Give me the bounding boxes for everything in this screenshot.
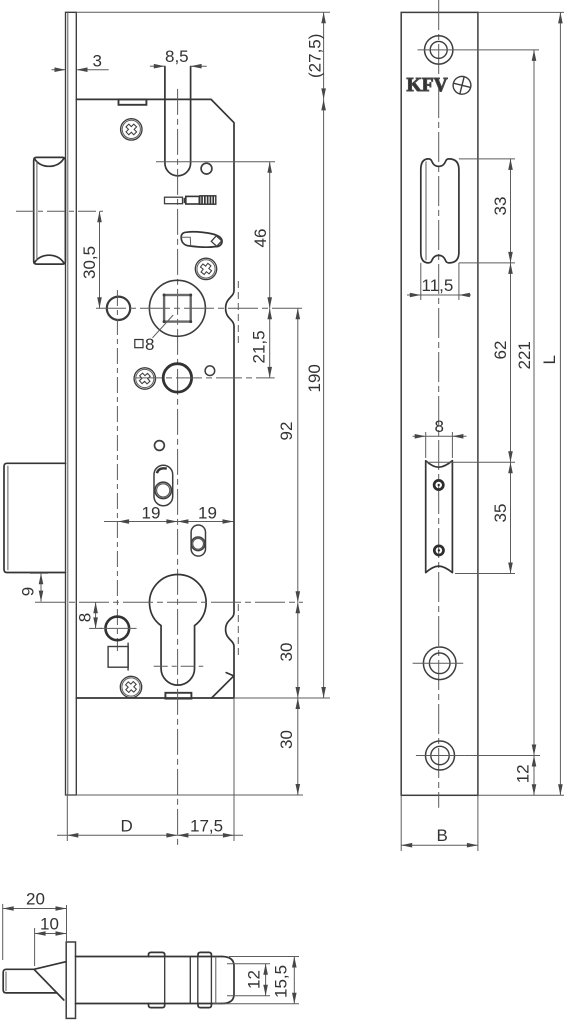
svg-text:62: 62 (491, 341, 510, 360)
spindle bold circle (163, 364, 191, 392)
latch bevel (34, 962, 65, 1000)
spindle horizontal centerline (136, 377, 275, 379)
svg-text:8: 8 (145, 335, 154, 354)
dimension B (401, 795, 478, 851)
svg-text:46: 46 (251, 229, 270, 248)
top extension line (76, 11, 330, 13)
ratchet rack (165, 196, 216, 204)
bottom fixing tab (165, 693, 191, 699)
svg-text:12: 12 (513, 764, 532, 783)
svg-text:12: 12 (245, 970, 264, 989)
flange plate (66, 942, 75, 1018)
dimension 30 lower (277, 698, 300, 795)
dimension 21,5 (249, 308, 272, 378)
dimension 9 (19, 573, 49, 601)
label square8 (135, 335, 155, 354)
lower slot 8x35 (426, 461, 453, 573)
svg-text:15,5: 15,5 (272, 965, 291, 998)
hole H1 (left, follower row) (107, 297, 130, 320)
roller latch head (34, 157, 66, 264)
faceplate strip (66, 12, 77, 795)
faceplate centerline (438, 0, 440, 808)
dimension 3 (52, 52, 109, 73)
dimension 15,5 (detail) (213, 957, 299, 1004)
small circle (slot bottom right) (201, 163, 212, 174)
dimension D 17,5 (57, 795, 243, 841)
svg-text:3: 3 (93, 52, 102, 71)
lock case outline (76, 99, 234, 698)
svg-text:B: B (437, 826, 448, 845)
extension 20/10 at flange (66, 905, 68, 942)
right oval with roller (191, 525, 205, 556)
dimension (27,5) (305, 12, 326, 99)
svg-text:33: 33 (491, 197, 510, 216)
dimension 11,5 (407, 263, 471, 300)
cylinder horizontal centerline (35, 601, 303, 603)
small circle above left oval (155, 441, 165, 451)
case edge extension below (233, 698, 235, 841)
dimension 190 (305, 99, 326, 698)
svg-text:35: 35 (491, 504, 510, 523)
case bottom-right chamfer line (212, 673, 234, 698)
hidden edge dashes beside notches (237, 281, 239, 346)
deadbolt (4, 463, 66, 572)
bottom hole extension (465, 755, 540, 757)
bottom screw hole (416, 741, 465, 770)
svg-text:L: L (540, 355, 559, 364)
dimension L (540, 12, 563, 795)
roller centerline (16, 210, 103, 212)
svg-text:190: 190 (305, 364, 324, 392)
svg-text:21,5: 21,5 (249, 330, 268, 363)
guide slot 33x11,5 (421, 159, 459, 263)
hole H2 (left, cylinder row) with crosshair (99, 617, 137, 641)
screw S3 (mid left) (134, 368, 155, 389)
dimension 19 19 (104, 504, 234, 524)
dimension 8 (faceplate slot) (413, 417, 467, 458)
top slot 8,5 (165, 67, 191, 176)
dimension 8 (left view) (75, 602, 102, 628)
svg-text:221: 221 (515, 341, 534, 369)
faceplate bottom extension (76, 794, 303, 796)
svg-text:19: 19 (142, 504, 161, 523)
dimension 33 (491, 159, 513, 263)
slot 33 top extension (459, 158, 515, 160)
slot top extension (426, 461, 515, 463)
spring clip top 1 (149, 952, 165, 956)
plate bottom extension (478, 794, 564, 796)
svg-text:19: 19 (198, 504, 217, 523)
screw S2 (upper right) (195, 258, 216, 279)
svg-text:(27,5): (27,5) (305, 34, 324, 78)
dimension 92 (277, 308, 300, 602)
leader line square 8 (153, 315, 174, 338)
dimension 30,5 (80, 211, 102, 308)
dimension 221 (515, 50, 537, 756)
svg-text:KFV: KFV (407, 75, 448, 96)
svg-text:11,5: 11,5 (422, 276, 454, 295)
dimension 12 (faceplate) (513, 756, 536, 796)
left column centerline (116, 290, 118, 651)
top hole extension (462, 49, 539, 51)
dimension 10 (35, 915, 67, 967)
screw S4 (bottom) (120, 676, 141, 697)
dimension 20 (3, 890, 67, 961)
spring clip bottom 2 (198, 1004, 211, 1008)
rivet R2 (434, 546, 443, 555)
faceplate outline (401, 12, 478, 795)
svg-text:30: 30 (277, 643, 296, 662)
follower with square 8 (149, 280, 205, 336)
svg-text:8: 8 (435, 417, 444, 436)
dimension 8,5 (150, 47, 207, 69)
registration mark (451, 75, 473, 97)
dimension 35 (491, 462, 513, 573)
middle screw hole (413, 647, 464, 680)
control lever (181, 232, 222, 247)
top fixing tab (119, 99, 147, 104)
svg-text:8,5: 8,5 (165, 47, 189, 66)
left oval with roller (154, 465, 173, 506)
top screw hole (418, 36, 462, 64)
svg-text:30: 30 (277, 730, 296, 749)
latch body (76, 957, 235, 1004)
dimension 62 (491, 263, 513, 462)
svg-text:D: D (121, 817, 133, 836)
main vertical centerline (177, 89, 179, 847)
latch tip (3, 969, 57, 993)
screw S1 (top) (121, 119, 142, 140)
dimension 30 upper (277, 602, 300, 698)
follower horizontal centerline (96, 307, 303, 309)
spring clip top 2 (198, 952, 211, 956)
square below hole H2 (108, 643, 128, 671)
svg-text:8: 8 (75, 613, 94, 622)
svg-text:10: 10 (40, 915, 59, 934)
svg-text:9: 9 (19, 587, 38, 596)
plate top extension (478, 11, 564, 13)
rivet R1 (434, 480, 443, 489)
small circle right of spindle hole (205, 366, 215, 376)
case bottom extension right (234, 697, 330, 699)
dimension 12 (detail) (227, 964, 270, 996)
slot bottom extension (455, 573, 515, 575)
slot 33 bottom extension (459, 262, 515, 264)
svg-text:30,5: 30,5 (80, 246, 99, 279)
dimension 46 (156, 162, 275, 309)
svg-text:17,5: 17,5 (190, 817, 223, 836)
euro cylinder profile (149, 574, 206, 685)
cylinder screw axis dash (154, 665, 204, 667)
svg-text:20: 20 (26, 890, 45, 909)
svg-text:92: 92 (277, 422, 296, 441)
spring clip bottom 1 (149, 1004, 165, 1008)
